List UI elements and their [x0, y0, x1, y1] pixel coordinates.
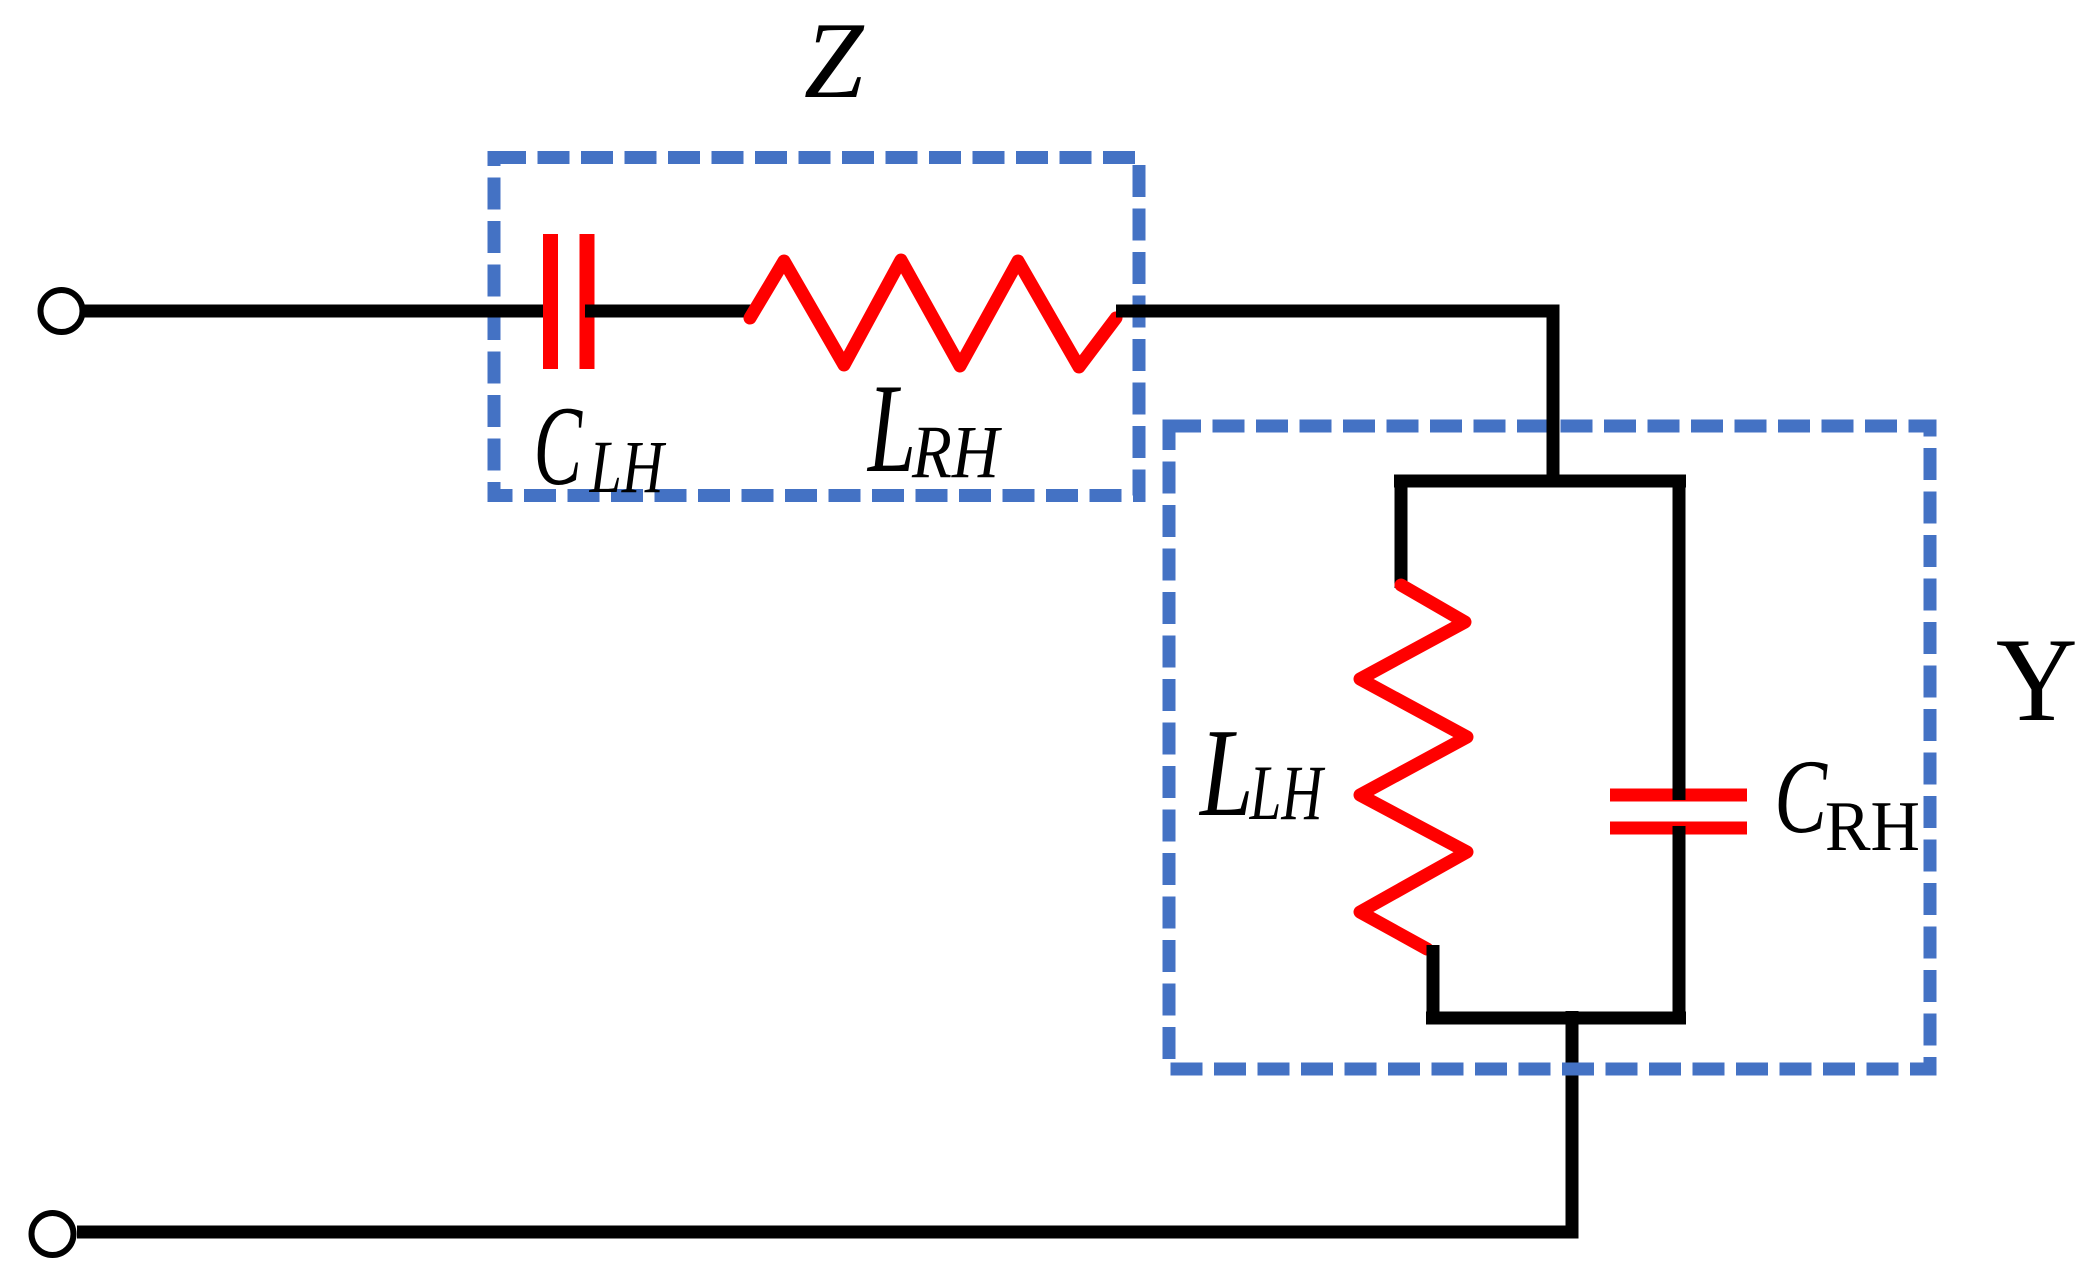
svg-text:RH: RH: [1825, 788, 1920, 866]
inductor L_LH (shunt zigzag, red): [1360, 585, 1467, 949]
label C_LH: [534, 383, 667, 509]
wire: L_RH right, corner down into Y box: [1116, 311, 1553, 487]
wire: Y shunt output down and left to port 2: [77, 1011, 1572, 1232]
capacitor C_LH (series left-handed cap, red plates): [551, 234, 588, 369]
svg-text:C: C: [1774, 739, 1828, 856]
label C_RH: [1774, 739, 1920, 866]
svg-text:C: C: [534, 383, 583, 509]
svg-text:LH: LH: [1249, 749, 1326, 836]
wire: C_LH to L_RH: [585, 305, 756, 318]
wire: left shunt branch upper stub: [1395, 475, 1408, 588]
wire: right shunt branch upper: [1673, 475, 1686, 800]
svg-text:L: L: [1198, 704, 1253, 843]
group box Z (dashed blue): [494, 158, 1139, 496]
wire: port 1 to C_LH: [84, 305, 549, 318]
label L_LH: [1198, 704, 1325, 843]
wire: right shunt branch lower: [1673, 826, 1686, 1024]
svg-text:LH: LH: [589, 425, 667, 509]
terminal port 2 (bottom left): [32, 1213, 74, 1255]
svg-text:RH: RH: [911, 411, 1003, 494]
label L_RH: [866, 357, 1002, 499]
bottom bar of shunt parallel branch: [1426, 1012, 1686, 1025]
wire: left shunt branch lower stub: [1427, 945, 1440, 1024]
group box Y (dashed blue): [1169, 426, 1930, 1069]
capacitor C_RH (shunt right-handed cap, red plates): [1610, 795, 1747, 828]
top bar of shunt parallel branch: [1394, 475, 1686, 488]
inductor L_RH (series zigzag, red): [750, 260, 1116, 367]
svg-text:L: L: [866, 357, 916, 499]
svg-text:Z: Z: [804, 1, 865, 121]
svg-text:Y: Y: [1996, 614, 2078, 747]
terminal port 1 (top left): [41, 290, 83, 332]
